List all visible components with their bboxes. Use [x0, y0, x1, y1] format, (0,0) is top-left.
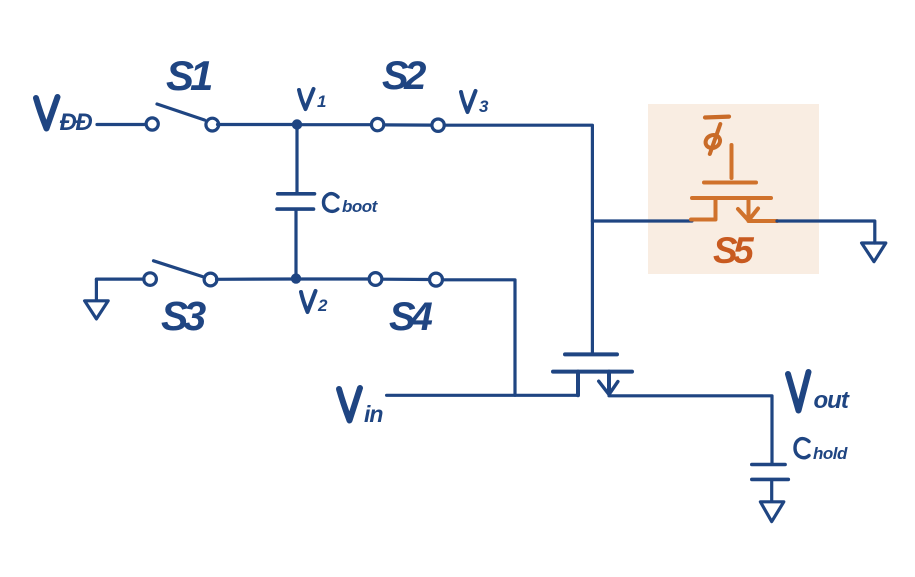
svg-text:out: out: [814, 387, 850, 414]
svg-text:1: 1: [317, 92, 326, 111]
label S5: [713, 230, 755, 271]
label V2: [301, 291, 328, 315]
label V3: [461, 91, 489, 116]
transistor M1 (blue NMOS pass switch): [553, 354, 632, 395]
label V1: [299, 89, 326, 111]
wire Vin to transistor source: [387, 394, 578, 397]
wire ground to S3: [96, 278, 144, 281]
svg-text:hold: hold: [813, 444, 848, 463]
label Chold: [795, 439, 848, 463]
label S2: [382, 54, 426, 98]
svg-text:S4: S4: [389, 295, 433, 339]
wire S1 to node V1: [218, 123, 298, 126]
label S1: [166, 52, 212, 99]
label VDD: [36, 97, 92, 136]
label Vout: [788, 372, 850, 414]
capacitor Cboot: [277, 130, 315, 279]
svg-text:S5: S5: [713, 230, 755, 271]
ground top right: [862, 243, 886, 262]
svg-text:ĐĐ: ĐĐ: [60, 109, 93, 136]
svg-text:2: 2: [317, 296, 328, 315]
svg-text:S2: S2: [382, 54, 426, 98]
node V1 (junction dot): [292, 119, 302, 129]
label Cboot: [324, 194, 379, 216]
wire transistor drain to Vout corner: [609, 396, 772, 463]
wire V2 to S4: [296, 277, 369, 280]
wire branch to S5: [592, 219, 692, 222]
label S4: [389, 295, 433, 339]
ground left: [85, 279, 109, 319]
svg-text:S1: S1: [166, 52, 212, 99]
wire S5 to ground corner: [777, 221, 875, 243]
svg-text:in: in: [364, 401, 383, 427]
ground below Chold: [760, 502, 783, 522]
switch S3: [144, 261, 217, 286]
svg-text:3: 3: [479, 97, 489, 116]
wire VDD to S1: [97, 123, 146, 126]
svg-text:boot: boot: [342, 197, 379, 216]
label S3: [161, 293, 206, 339]
transistor S5 (orange, highlighted): [691, 145, 777, 221]
switch S2 (closed): [371, 118, 444, 131]
switch S4 (closed): [369, 273, 442, 287]
label phi-bar (gate signal of S5): [703, 117, 729, 154]
label Vin: [339, 388, 383, 427]
node V2 (junction dot): [291, 273, 301, 283]
switch S1: [146, 104, 219, 131]
highlight box around S5: [648, 104, 819, 274]
capacitor Chold: [752, 465, 789, 501]
wire S4 to Vin line: [443, 280, 516, 396]
wire S3 to node V2: [217, 277, 297, 280]
svg-text:S3: S3: [161, 293, 206, 339]
wire V1 to S2: [297, 123, 372, 126]
wire S2 to corner, node V3: [444, 125, 592, 354]
